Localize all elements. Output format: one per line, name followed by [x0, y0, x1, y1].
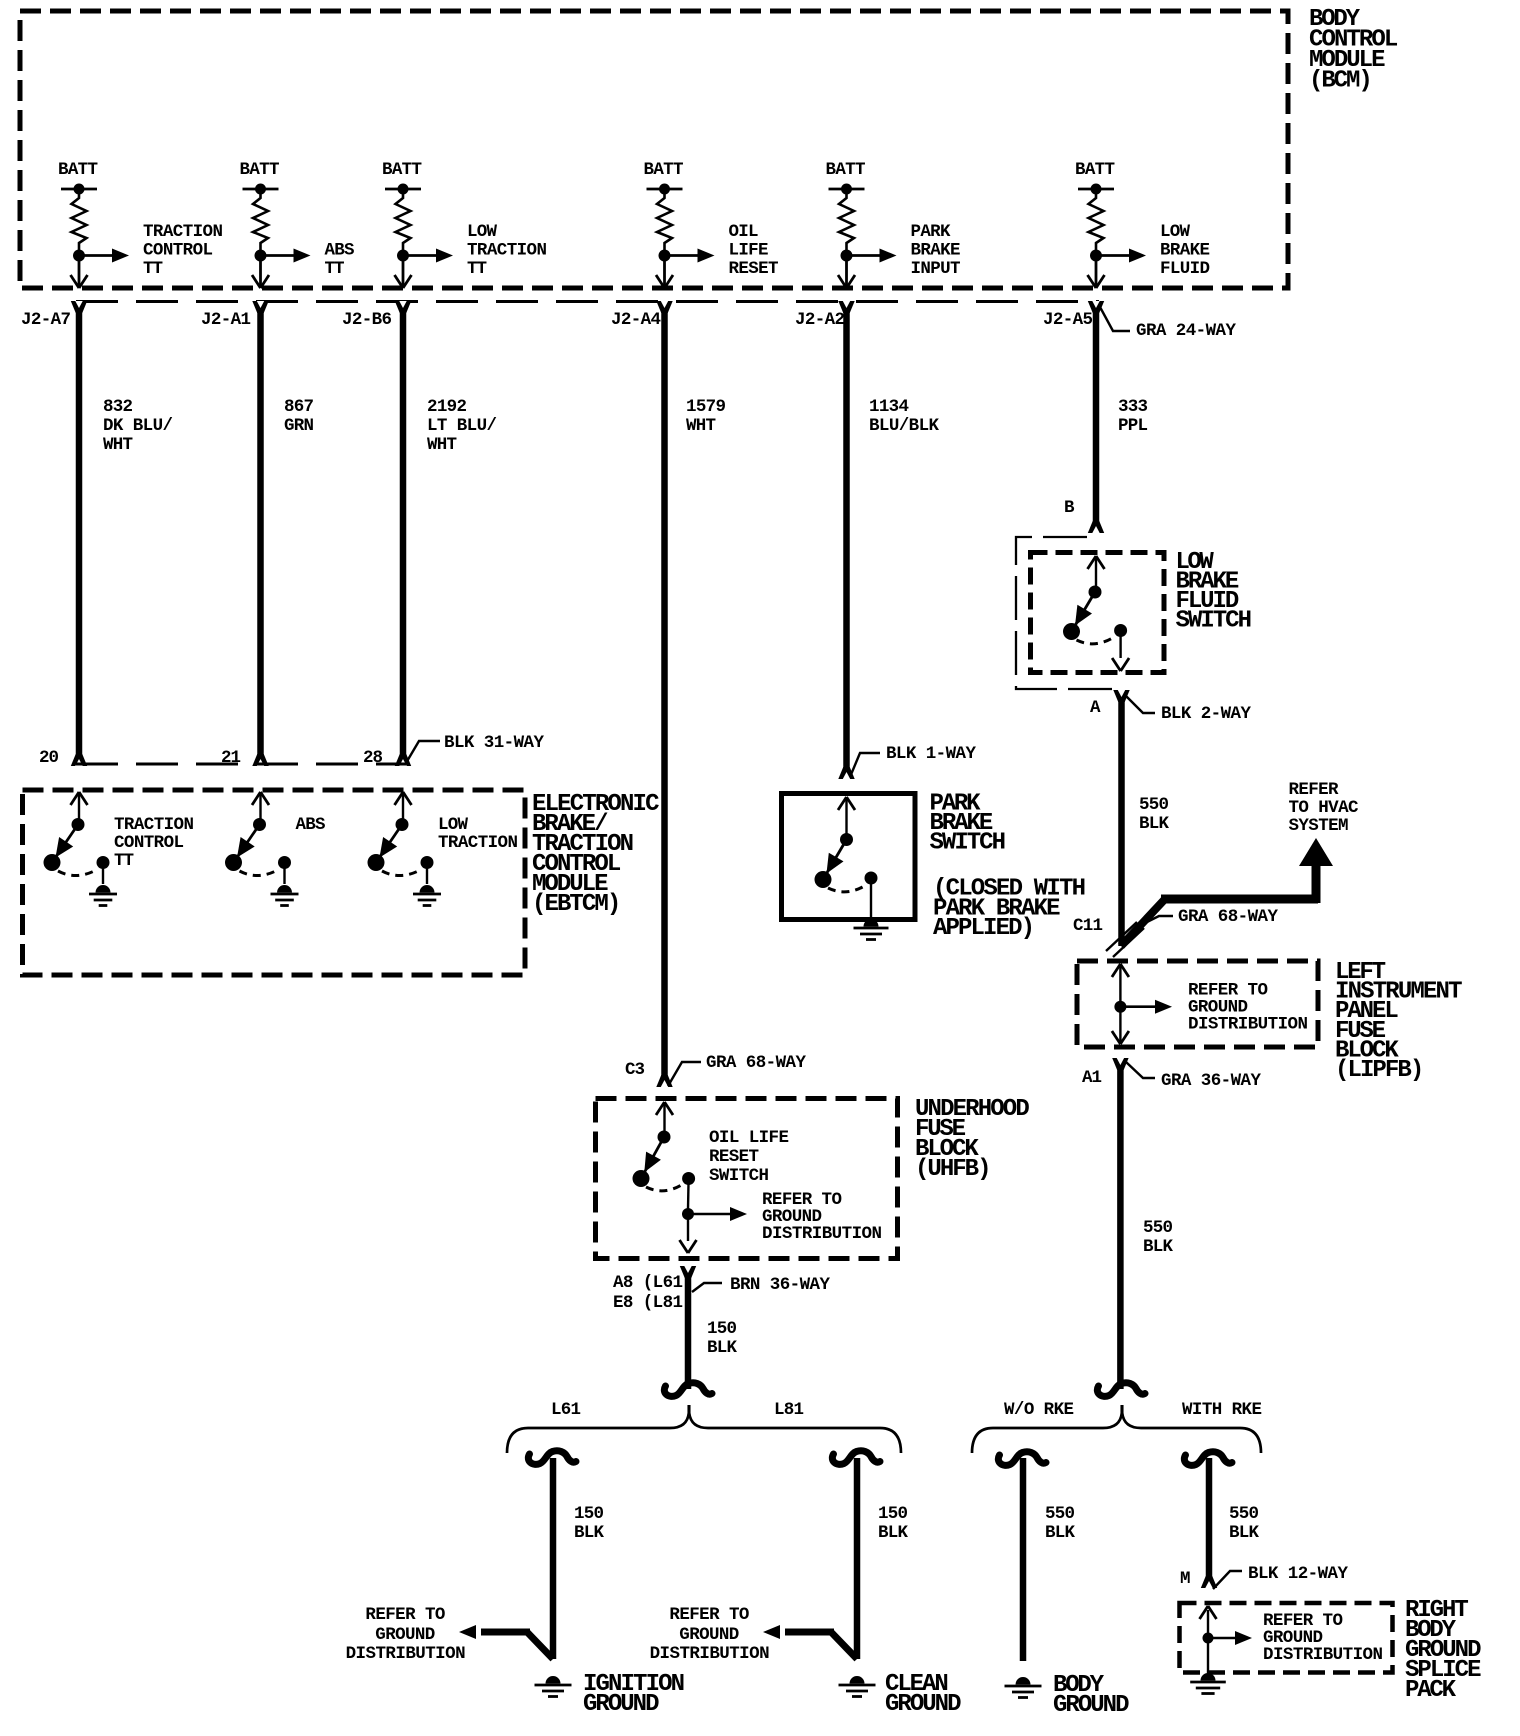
splice hook (WITH RKE branch)	[1184, 1452, 1232, 1466]
svg-text:DISTRIBUTION: DISTRIBUTION	[1263, 1645, 1383, 1665]
svg-text:BLK 1-WAY: BLK 1-WAY	[886, 744, 976, 764]
svg-text:LT BLU/: LT BLU/	[427, 416, 497, 436]
connector tag BRN 36-WAY	[692, 1283, 722, 1292]
svg-text:J2-A1: J2-A1	[201, 310, 251, 330]
svg-text:INPUT: INPUT	[911, 259, 961, 279]
connector tag GRA 24-WAY	[1100, 307, 1130, 331]
svg-text:DK BLU/: DK BLU/	[103, 416, 173, 436]
svg-text:SYSTEM: SYSTEM	[1289, 816, 1349, 836]
switch S3 output node	[421, 856, 434, 869]
svg-text:CONTROL: CONTROL	[114, 833, 184, 853]
ground symbol BODY GROUND	[1016, 1677, 1031, 1685]
svg-text:GROUND: GROUND	[885, 1691, 962, 1718]
connector C11 end slashes	[1106, 922, 1137, 951]
wire 832 DK BLU/WHT (J2-A7 to EBTCM pin 20)	[76, 301, 83, 766]
switch S3 closed-position node	[368, 854, 385, 871]
svg-text:150: 150	[707, 1319, 737, 1339]
svg-text:BLK: BLK	[878, 1523, 908, 1543]
BATT feed 4: battery terminal bar and node	[647, 188, 683, 191]
svg-text:1134: 1134	[869, 397, 909, 417]
oil life reset switch throw arc (dashed)	[646, 1184, 683, 1191]
park brake switch output node	[865, 872, 878, 885]
low brake fluid switch pole node	[1089, 586, 1102, 599]
low brake fluid switch output node	[1114, 624, 1127, 637]
oil life reset switch movable contact blade	[641, 1137, 664, 1179]
svg-text:832: 832	[103, 397, 133, 417]
svg-text:C3: C3	[625, 1060, 645, 1080]
svg-text:J2-A5: J2-A5	[1043, 310, 1093, 330]
svg-text:GROUND: GROUND	[1053, 1692, 1130, 1719]
resistor R5 (BCM internal pull-up)	[839, 189, 854, 250]
svg-text:TT: TT	[143, 259, 163, 279]
ground symbol G3 (EBTCM internal)	[420, 885, 435, 892]
connector tag BLK 2-WAY	[1126, 696, 1155, 713]
svg-text:APPLIED): APPLIED)	[933, 915, 1035, 942]
svg-text:550: 550	[1045, 1504, 1075, 1524]
arrow to HVAC system	[1299, 838, 1333, 866]
svg-text:550: 550	[1229, 1504, 1259, 1524]
switch S2 wire to ground	[283, 863, 285, 885]
UHFB output wire and arrow	[687, 1214, 689, 1241]
svg-text:REFER TO: REFER TO	[669, 1605, 749, 1625]
svg-text:BLK 31-WAY: BLK 31-WAY	[444, 733, 544, 753]
branch wire to HVAC system (diagonal)	[1121, 899, 1165, 946]
svg-text:J2-A7: J2-A7	[21, 310, 71, 330]
svg-text:20: 20	[39, 748, 59, 768]
wire 867 GRN (J2-A1 to EBTCM pin 21)	[257, 301, 264, 766]
node junction 2 (signal takeoff)	[255, 250, 267, 262]
svg-text:BRAKE: BRAKE	[911, 241, 961, 261]
switch S1 output node	[97, 856, 110, 869]
svg-text:GRA 68-WAY: GRA 68-WAY	[1178, 907, 1278, 927]
wire 550 BLK (WITH RKE branch)	[1206, 1458, 1213, 1588]
oil life reset switch closed node	[633, 1170, 650, 1187]
svg-text:WHT: WHT	[103, 435, 133, 455]
low brake fluid switch movable contact blade	[1072, 592, 1096, 632]
signal arrow 1 to the right	[79, 254, 114, 257]
connector tag GRA 36-WAY	[1126, 1062, 1155, 1078]
svg-text:WITH RKE: WITH RKE	[1182, 1400, 1262, 1420]
resistor R4 (BCM internal pull-up)	[657, 189, 672, 250]
svg-text:BLK: BLK	[1139, 814, 1169, 834]
svg-text:PARK: PARK	[911, 222, 951, 242]
svg-text:BLK: BLK	[1229, 1523, 1259, 1543]
svg-text:BATT: BATT	[644, 160, 684, 180]
ground symbol G1 (EBTCM internal)	[96, 885, 111, 892]
signal arrow 6 to the right	[1096, 254, 1131, 257]
svg-text:BLK: BLK	[574, 1523, 604, 1543]
LIPFB junction node	[1114, 1001, 1126, 1013]
ground symbol (splice pack)	[1201, 1673, 1216, 1680]
svg-text:TRACTION: TRACTION	[467, 241, 547, 261]
svg-text:L81: L81	[774, 1400, 804, 1420]
signal arrow 5 to the right	[847, 254, 882, 257]
svg-text:DISTRIBUTION: DISTRIBUTION	[650, 1644, 770, 1664]
svg-text:B: B	[1064, 498, 1075, 518]
svg-text:OIL: OIL	[729, 222, 759, 242]
svg-text:LOW: LOW	[438, 815, 468, 835]
svg-text:BLU/BLK: BLU/BLK	[869, 416, 939, 436]
switch S1 wire to ground	[102, 863, 104, 885]
svg-text:(EBTCM): (EBTCM)	[532, 891, 621, 918]
connector tag BLK 1-WAY	[850, 753, 880, 777]
branch elbow to ground distribution (L81)	[831, 1632, 857, 1659]
connector line EBTCM (dashed)	[76, 763, 406, 766]
switch S1 movable contact blade	[52, 825, 78, 863]
module LIPFB box (Left Instrument Panel Fuse Block, dashed)	[1077, 961, 1318, 1047]
svg-text:150: 150	[878, 1504, 908, 1524]
svg-text:BATT: BATT	[382, 160, 422, 180]
node junction 4 (signal takeoff)	[659, 250, 671, 262]
branch wire to HVAC system (horizontal)	[1161, 895, 1318, 904]
svg-text:J2-B6: J2-B6	[342, 310, 392, 330]
wire 1134 BLU/BLK (J2-A2 to park brake switch)	[843, 301, 850, 779]
svg-text:TRACTION: TRACTION	[438, 833, 518, 853]
svg-text:GROUND: GROUND	[375, 1625, 435, 1645]
low brake fluid switch input arrow	[1088, 556, 1097, 569]
svg-text:LIFE: LIFE	[729, 241, 769, 261]
wire 150 BLK (L81 branch)	[854, 1458, 861, 1659]
brace splitting 150 BLK into L61/L81 branches	[507, 1405, 901, 1453]
wire 2 down to BCM edge with arrowhead	[259, 256, 262, 288]
arrow to ground distribution (L81)	[763, 1625, 780, 1639]
node junction 5 (signal takeoff)	[841, 250, 853, 262]
oil life reset switch output node	[682, 1172, 695, 1185]
svg-text:(BCM): (BCM)	[1309, 68, 1373, 95]
splice S (150 BLK)	[664, 1383, 712, 1397]
node junction 6 (signal takeoff)	[1090, 250, 1102, 262]
svg-text:LOW: LOW	[1160, 222, 1190, 242]
RBGSP junction node	[1203, 1633, 1214, 1644]
svg-text:TRACTION: TRACTION	[143, 222, 223, 242]
UHFB junction node	[682, 1208, 694, 1220]
signal arrow 4 to the right	[665, 254, 700, 257]
svg-text:A: A	[1090, 698, 1101, 718]
park brake switch throw arc (dashed)	[828, 885, 866, 892]
low brake fluid switch connector outline (thin)	[1016, 537, 1114, 689]
wire 1 down to BCM edge with arrowhead	[78, 256, 81, 288]
arrow to ground distribution (L61)	[459, 1625, 476, 1639]
brace splitting 550 BLK into W/O RKE / WITH RKE branches	[972, 1405, 1261, 1453]
resistor R3 (BCM internal pull-up)	[396, 189, 411, 250]
low brake fluid switch throw arc (dashed)	[1077, 637, 1115, 644]
svg-text:BLK 12-WAY: BLK 12-WAY	[1248, 1564, 1348, 1584]
UHFB arrow to ground distribution	[688, 1213, 731, 1216]
wire 550 BLK (LIPFB A1 to splice)	[1117, 1058, 1124, 1389]
branch wire to HVAC system (vertical riser)	[1312, 862, 1321, 903]
LIPFB arrow to ground distribution	[1120, 1005, 1156, 1008]
svg-text:BRAKE: BRAKE	[1160, 241, 1210, 261]
svg-text:J2-A4: J2-A4	[611, 310, 661, 330]
svg-text:SWITCH: SWITCH	[709, 1166, 769, 1186]
switch S3 input arrow	[395, 792, 404, 805]
signal arrow 3 to the right	[403, 254, 438, 257]
svg-text:OIL LIFE: OIL LIFE	[709, 1128, 789, 1148]
switch S2 input arrow	[252, 792, 261, 805]
park brake switch pole node	[840, 833, 853, 846]
svg-text:PACK: PACK	[1405, 1677, 1457, 1704]
svg-text:GROUND: GROUND	[583, 1691, 660, 1718]
switch S2 output node	[278, 856, 291, 869]
resistor R1 (BCM internal pull-up)	[72, 189, 87, 250]
svg-text:BATT: BATT	[58, 160, 98, 180]
BATT feed 5: battery terminal bar and node	[829, 188, 865, 191]
svg-text:PPL: PPL	[1118, 416, 1148, 436]
svg-text:BATT: BATT	[240, 160, 280, 180]
svg-text:867: 867	[284, 397, 314, 417]
svg-text:550: 550	[1139, 795, 1169, 815]
svg-text:A1: A1	[1082, 1068, 1102, 1088]
switch S1 pole node	[72, 818, 85, 831]
RBGSP pass-through wire with arrow	[1207, 1610, 1209, 1674]
svg-text:(UHFB): (UHFB)	[915, 1156, 992, 1183]
svg-text:REFER TO: REFER TO	[365, 1605, 445, 1625]
branch elbow to ground distribution (L61)	[527, 1632, 553, 1659]
splice S (550 BLK)	[1097, 1383, 1145, 1397]
switch S3 wire to ground	[426, 863, 428, 885]
svg-text:SWITCH: SWITCH	[1176, 608, 1253, 635]
switch S3 pole node	[396, 818, 409, 831]
switch S1 throw arc (dashed)	[58, 869, 98, 876]
connector tag GRA 68-WAY at C3	[668, 1062, 701, 1086]
switch S1 closed-position node	[44, 854, 61, 871]
oil life reset switch output wire	[687, 1179, 690, 1210]
svg-text:(LIPFB): (LIPFB)	[1335, 1057, 1424, 1084]
connector line J2 (BCM 24-way, dashed)	[76, 300, 1099, 303]
park brake switch wire to ground	[870, 878, 872, 919]
ground symbol CLEAN GROUND	[850, 1676, 865, 1684]
svg-text:BLK: BLK	[1045, 1523, 1075, 1543]
wire 550 BLK (low brake fluid switch A to C11)	[1118, 690, 1125, 946]
wire 150 BLK (L61 branch)	[550, 1458, 557, 1659]
ground symbol (park brake switch)	[864, 919, 879, 926]
svg-text:GRA 68-WAY: GRA 68-WAY	[706, 1053, 806, 1073]
wire 5 down to BCM edge with arrowhead	[845, 256, 848, 288]
module EBTCM box (Electronic Brake/Traction Control Module)	[23, 790, 526, 975]
BATT feed 3: battery terminal bar and node	[385, 188, 421, 191]
park brake switch input arrow	[838, 797, 847, 810]
svg-text:FLUID: FLUID	[1160, 259, 1210, 279]
svg-text:2192: 2192	[427, 397, 467, 417]
svg-text:CONTROL: CONTROL	[143, 241, 213, 261]
switch S3 movable contact blade	[376, 825, 402, 863]
module UHFB box (Underhood Fuse Block, dashed)	[596, 1099, 898, 1259]
LIPFB pass-through wire with arrows	[1119, 966, 1121, 1042]
RBGSP arrow to ground distribution	[1208, 1637, 1236, 1640]
svg-text:GRN: GRN	[284, 416, 314, 436]
component low brake fluid switch box (dashed)	[1031, 553, 1165, 673]
low brake fluid switch output wire	[1119, 631, 1121, 659]
svg-text:GROUND: GROUND	[679, 1625, 739, 1645]
wire 333 PPL (J2-A5 to low brake fluid switch pin B)	[1093, 301, 1100, 533]
ground symbol IGNITION GROUND	[546, 1676, 561, 1684]
BATT feed 6: battery terminal bar and node	[1078, 188, 1114, 191]
svg-text:C11: C11	[1073, 916, 1103, 936]
connector tag BLK 12-WAY	[1213, 1571, 1242, 1589]
wire 550 BLK (W/O RKE branch)	[1020, 1458, 1027, 1661]
resistor R6 (BCM internal pull-up)	[1089, 189, 1104, 250]
wire 150 BLK (UHFB to splice)	[685, 1266, 692, 1389]
svg-text:BATT: BATT	[1075, 160, 1115, 180]
svg-text:WHT: WHT	[427, 435, 457, 455]
svg-text:WHT: WHT	[686, 416, 716, 436]
svg-text:GRA 24-WAY: GRA 24-WAY	[1136, 321, 1236, 341]
oil life reset switch pole node	[658, 1131, 671, 1144]
switch S3 throw arc (dashed)	[382, 869, 422, 876]
ground symbol G2 (EBTCM internal)	[277, 885, 292, 892]
svg-text:150: 150	[574, 1504, 604, 1524]
svg-text:REFER: REFER	[1289, 780, 1339, 800]
svg-text:L61: L61	[551, 1400, 581, 1420]
BATT feed 1: battery terminal bar and node	[61, 188, 97, 191]
svg-text:DISTRIBUTION: DISTRIBUTION	[1188, 1015, 1308, 1035]
svg-text:RESET: RESET	[709, 1147, 759, 1167]
signal arrow 2 to the right	[261, 254, 296, 257]
svg-text:TRACTION: TRACTION	[114, 815, 194, 835]
connector tag BLK 31-WAY	[406, 741, 440, 763]
splice hook (L81 branch)	[832, 1451, 880, 1465]
low brake fluid switch output arrow	[1112, 658, 1121, 671]
svg-text:ABS: ABS	[325, 241, 355, 261]
wire 1579 WHT (J2-A4 to UHFB C3)	[661, 301, 668, 1087]
svg-text:BLK: BLK	[1143, 1237, 1173, 1257]
oil life reset switch input arrow	[656, 1102, 665, 1115]
wire 4 down to BCM edge with arrowhead	[663, 256, 666, 288]
wire 2192 LT BLU/WHT (J2-B6 to EBTCM pin 28)	[400, 301, 407, 766]
svg-text:TT: TT	[114, 851, 134, 871]
svg-text:TT: TT	[467, 259, 487, 279]
svg-text:BATT: BATT	[826, 160, 866, 180]
switch S2 pole node	[253, 818, 266, 831]
svg-text:DISTRIBUTION: DISTRIBUTION	[762, 1224, 882, 1244]
splice hook (W/O RKE branch)	[998, 1452, 1046, 1466]
resistor R2 (BCM internal pull-up)	[253, 189, 268, 250]
svg-text:DISTRIBUTION: DISTRIBUTION	[346, 1644, 466, 1664]
svg-text:TT: TT	[325, 259, 345, 279]
svg-text:BLK 2-WAY: BLK 2-WAY	[1161, 704, 1251, 724]
node junction 3 (signal takeoff)	[397, 250, 409, 262]
svg-text:SWITCH: SWITCH	[930, 830, 1007, 857]
wire 3 down to BCM edge with arrowhead	[402, 256, 405, 288]
park brake switch movable contact blade	[823, 840, 847, 880]
svg-text:W/O RKE: W/O RKE	[1004, 1400, 1074, 1420]
switch S2 closed-position node	[225, 854, 242, 871]
svg-text:GRA 36-WAY: GRA 36-WAY	[1161, 1071, 1261, 1091]
module BCM box (Body Control Module)	[20, 11, 1288, 288]
node junction 1 (signal takeoff)	[73, 250, 85, 262]
svg-text:TO HVAC: TO HVAC	[1289, 798, 1359, 818]
component park brake switch box	[782, 794, 916, 920]
svg-text:RESET: RESET	[729, 259, 779, 279]
svg-text:ABS: ABS	[296, 815, 326, 835]
BATT feed 2: battery terminal bar and node	[243, 188, 279, 191]
low brake fluid switch closed node	[1063, 623, 1080, 640]
svg-text:A8 (L61: A8 (L61	[613, 1273, 683, 1293]
svg-text:BRN 36-WAY: BRN 36-WAY	[730, 1275, 830, 1295]
svg-text:BLK: BLK	[707, 1338, 737, 1358]
svg-text:LOW: LOW	[467, 222, 497, 242]
svg-text:M: M	[1180, 1569, 1191, 1589]
switch S1 input arrow	[71, 792, 80, 805]
module RBGSP box (Right Body Ground Splice Pack, dashed)	[1180, 1603, 1393, 1673]
svg-text:1579: 1579	[686, 397, 726, 417]
switch S2 movable contact blade	[234, 825, 260, 863]
splice hook (L61 branch)	[528, 1451, 576, 1465]
svg-text:J2-A2: J2-A2	[795, 310, 845, 330]
switch S2 throw arc (dashed)	[240, 869, 280, 876]
svg-text:E8 (L81: E8 (L81	[613, 1293, 683, 1313]
park brake switch closed node	[815, 871, 832, 888]
wire 6 down to BCM edge with arrowhead	[1095, 256, 1098, 288]
connector tag GRA 68-WAY at C11	[1137, 916, 1173, 927]
svg-text:333: 333	[1118, 397, 1148, 417]
svg-text:550: 550	[1143, 1218, 1173, 1238]
